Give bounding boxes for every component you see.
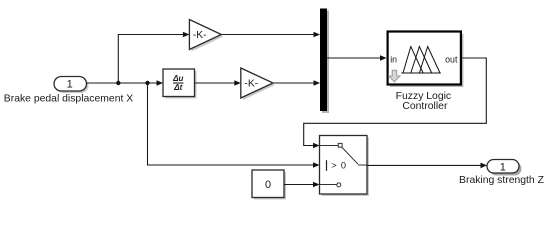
wire branch down from node B to switch middle input <box>148 83 320 168</box>
wire branch up to gain K1 <box>118 32 189 83</box>
switch lever diagonal <box>342 147 358 164</box>
wire mux to fuzzy controller <box>327 55 387 61</box>
input port In1 "1" <box>54 77 89 94</box>
svg-text:in: in <box>390 54 397 64</box>
node junction A <box>116 81 120 85</box>
svg-text:Braking strength Z: Braking strength Z <box>459 175 545 186</box>
svg-text:0: 0 <box>265 179 271 191</box>
wire derivative to gain K2 <box>195 80 241 86</box>
svg-text:>: > <box>331 161 336 171</box>
membership function baseline <box>401 72 441 74</box>
gray download arrow icon <box>389 70 400 82</box>
svg-text:Brake pedal displacement X: Brake pedal displacement X <box>4 93 133 104</box>
feedback wire fuzzy out to switch top input <box>304 58 487 148</box>
output port Out1 "1" <box>487 160 522 176</box>
wire constant to switch bottom input <box>284 182 320 188</box>
membership triangle 2 <box>411 47 432 74</box>
switch top port stub and contact square <box>320 145 338 147</box>
fuzzy logic controller block U1 <box>388 32 464 88</box>
membership triangle 1 <box>403 47 423 74</box>
svg-text:1: 1 <box>500 161 506 173</box>
mux block (black bar) <box>320 9 329 114</box>
switch block <box>320 136 370 197</box>
membership triangle 3 <box>419 47 440 74</box>
label: Fuzzy Logic Controller <box>396 91 451 112</box>
switch bottom port stub and contact circle <box>320 184 337 186</box>
wire In1 to derivative <box>87 80 164 86</box>
svg-text:1: 1 <box>67 78 73 90</box>
svg-text:Controller: Controller <box>402 101 448 112</box>
svg-text:out: out <box>445 54 458 64</box>
derivative block du/dt <box>163 69 197 99</box>
switch threshold tick <box>326 160 328 171</box>
node junction B <box>145 81 149 85</box>
svg-text:-K-: -K- <box>193 30 207 41</box>
wire gain K2 to mux <box>273 80 320 86</box>
constant block "0" <box>252 170 286 200</box>
wire gain K1 to mux <box>221 32 320 38</box>
svg-text:-K-: -K- <box>244 79 258 90</box>
wire switch to output port <box>367 163 487 169</box>
gain K2 (-K-) <box>241 68 275 100</box>
svg-text:Δt: Δt <box>173 83 182 92</box>
switch output stub <box>358 164 367 166</box>
gain K1 (-K-) <box>189 20 223 52</box>
svg-text:0: 0 <box>341 161 346 171</box>
